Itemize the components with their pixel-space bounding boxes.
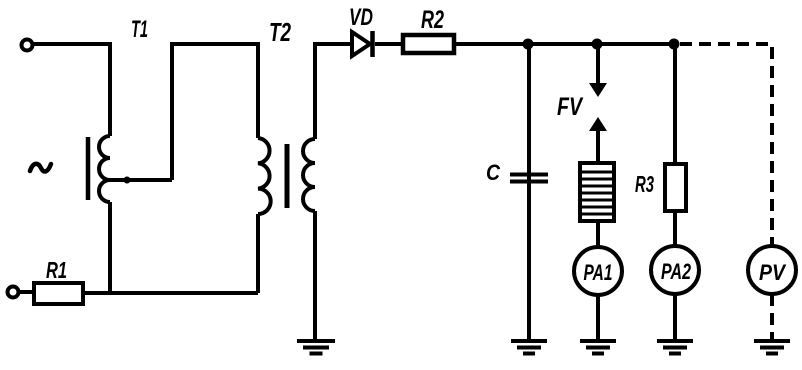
transformer T2 secondary winding: [303, 139, 315, 211]
wire R3 branch top: [673, 44, 677, 164]
wire T2 secondary to ground: [313, 211, 317, 341]
ammeter PA2: [651, 246, 699, 294]
label ac source tilde: [30, 164, 51, 172]
wire R2 to dashed rail: [455, 42, 678, 46]
wire T2 primary bottom: [256, 214, 260, 293]
resistor R3: [665, 164, 686, 211]
ground T2 secondary: [297, 341, 335, 354]
dashed wire to PV: [680, 44, 772, 246]
ground PV: [754, 341, 790, 354]
svg-text:PA1: PA1: [584, 260, 613, 285]
svg-text:C: C: [486, 160, 501, 185]
junction node FV branch: [592, 39, 603, 50]
input terminal bottom-left: [8, 287, 19, 298]
wire PA2 to ground: [673, 294, 677, 341]
resistor R2: [403, 35, 454, 53]
resistor R1: [34, 283, 83, 304]
arrester FV top arrow: [589, 44, 607, 97]
wire T1 bottom to ground rail: [108, 202, 112, 295]
svg-text:PA2: PA2: [661, 259, 692, 284]
ground PA1: [580, 341, 616, 354]
ground capacitor C: [511, 341, 547, 354]
transformer T1 core: [86, 137, 91, 200]
transformer T2 primary winding: [258, 138, 271, 214]
dashed wire PV to ground: [770, 294, 774, 341]
voltmeter PV: [748, 246, 796, 294]
diode VD: [352, 31, 373, 57]
svg-text:VD: VD: [349, 4, 373, 31]
svg-text:PV: PV: [759, 260, 787, 285]
wire T2 secondary top to diode: [315, 44, 353, 139]
transformer T2 core: [285, 144, 290, 208]
wire diode to R2: [375, 42, 403, 46]
wire T1 tap: [110, 178, 172, 182]
svg-text:R2: R2: [421, 6, 444, 34]
wire top-left terminal to T1: [33, 44, 110, 136]
wire tap up and over to T2: [172, 44, 258, 180]
junction T1 tap: [124, 177, 131, 184]
svg-text:FV: FV: [557, 93, 584, 121]
capacitor C plates: [510, 175, 548, 182]
transformer T1 winding: [99, 136, 110, 202]
wire capacitor branch: [527, 44, 531, 341]
arrester FV striped body: [580, 163, 614, 221]
wire PA1 to ground: [596, 295, 600, 341]
wire R3 to PA2: [673, 211, 677, 246]
junction node capacitor branch: [523, 39, 534, 50]
svg-text:R3: R3: [635, 171, 654, 197]
ammeter PA1: [574, 247, 622, 295]
svg-text:T2: T2: [269, 17, 291, 47]
junction node R3 branch: [669, 39, 680, 50]
input terminal top-left: [22, 40, 33, 51]
wire bottom rail R1 to T2: [83, 291, 258, 295]
svg-text:R1: R1: [46, 257, 67, 283]
wire FV to PA1: [596, 221, 600, 247]
svg-text:T1: T1: [131, 16, 148, 43]
ground PA2: [657, 341, 693, 354]
arrester FV bottom arrow: [589, 117, 607, 163]
wire terminal to R1: [18, 290, 34, 294]
